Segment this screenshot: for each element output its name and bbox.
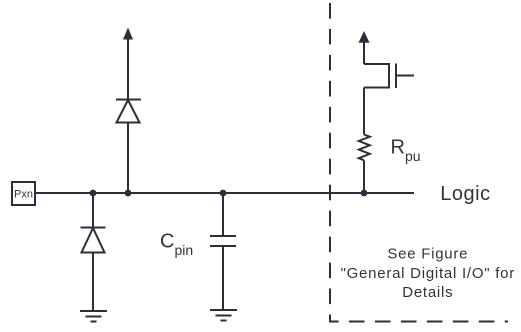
wire MOSFET source to resistor Rpu xyxy=(363,88,365,135)
pin Pxn xyxy=(12,182,35,205)
svg-text:Details: Details xyxy=(402,284,453,301)
diode D1 (pin to VCC clamp) xyxy=(116,100,141,123)
note see-figure text xyxy=(341,245,515,301)
svg-text:"General Digital I/O" for: "General Digital I/O" for xyxy=(341,265,515,282)
node junction at capacitor Cpin xyxy=(220,190,227,197)
node junction at pull-up Rpu xyxy=(361,190,368,197)
svg-text:Pxn: Pxn xyxy=(14,189,33,201)
node junction at clamp diode D1 xyxy=(125,190,132,197)
dashed boundary between pad and logic sections xyxy=(330,3,508,322)
wire main horizontal net from Pxn to Logic xyxy=(35,192,414,194)
wire capacitor to ground xyxy=(222,246,224,310)
svg-text:Rpu: Rpu xyxy=(391,137,421,165)
VCC arrow (pull-up supply) xyxy=(359,31,370,64)
wire net to capacitor Cpin xyxy=(222,193,224,236)
resistor Rpu xyxy=(359,135,370,161)
capacitor Cpin xyxy=(210,236,236,246)
wire resistor Rpu to net xyxy=(363,160,365,193)
wire diode D2 to ground xyxy=(92,253,94,312)
node junction at clamp diode D2 xyxy=(90,190,97,197)
ground (below diode D2) xyxy=(80,311,107,322)
transistor pull-up MOSFET xyxy=(364,64,414,89)
ground (below capacitor Cpin) xyxy=(210,310,237,321)
svg-text:Cpin: Cpin xyxy=(160,231,193,259)
VCC arrow (top-left supply) xyxy=(123,28,133,57)
wire diode D1 to net xyxy=(127,123,129,194)
wire VCC arrow to diode D1 xyxy=(127,56,129,100)
svg-text:See Figure: See Figure xyxy=(387,245,468,262)
diode D2 (GND to pin clamp) xyxy=(81,228,106,253)
wire net to diode D2 xyxy=(92,193,94,228)
svg-text:Logic: Logic xyxy=(440,183,490,205)
